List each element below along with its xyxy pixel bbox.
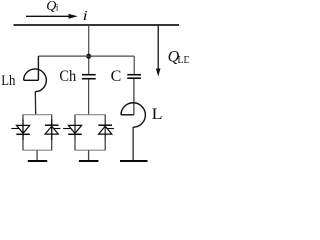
- svg-text:Ch: Ch: [59, 68, 76, 86]
- wire: bus to junction node: [88, 25, 90, 74]
- inductor Lh (loop symbol): [24, 56, 47, 115]
- svg-text:L: L: [152, 105, 163, 123]
- ground bar 1: [28, 160, 47, 162]
- svg-text:C: C: [111, 68, 122, 85]
- label QLD: [168, 48, 191, 66]
- svg-text:Lh: Lh: [1, 73, 15, 89]
- node junction dot: [86, 54, 91, 59]
- wire: thyristor leads (dark segments): [23, 120, 105, 141]
- ground bar 2: [79, 160, 99, 162]
- svg-text:LD: LD: [177, 55, 189, 66]
- wire: Ch to box2: [88, 80, 90, 116]
- arrow Qi current direction: [26, 14, 78, 19]
- arrow QLD load current: [156, 26, 161, 77]
- label Qi: [46, 0, 59, 14]
- capacitor Ch: [82, 75, 96, 79]
- thyristor V2 (up): [45, 125, 61, 134]
- wire: box1 to ground: [36, 150, 38, 160]
- wire: box2 to ground: [88, 150, 90, 160]
- thyristor V1 (down): [11, 125, 30, 134]
- wire: rail corner down to C: [133, 56, 135, 74]
- ground bar 3 (under L): [120, 160, 148, 162]
- svg-text:i: i: [56, 2, 59, 12]
- wire: branch rail at y56: [38, 55, 134, 57]
- thyristor V4 (up): [98, 125, 114, 134]
- wire: C down to L: [133, 79, 135, 115]
- svg-text:i: i: [83, 8, 89, 24]
- box1 outline (left thyristor pair): [23, 115, 52, 151]
- inductor L (loop symbol): [121, 103, 145, 160]
- thyristor V3 (down): [63, 125, 82, 134]
- capacitor C: [127, 75, 141, 79]
- box2 outline (right thyristor pair): [75, 115, 106, 151]
- wire: top bus: [14, 24, 180, 26]
